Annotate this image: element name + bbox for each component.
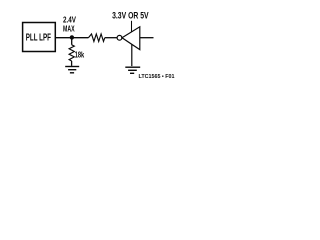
svg-text:3.3V OR 5V: 3.3V OR 5V (112, 10, 149, 20)
output wire (140, 37, 154, 39)
op-amp U1 inverter triangle (122, 27, 140, 50)
inverter bubble (117, 35, 122, 40)
wire box to R1 through node (55, 37, 88, 39)
ground (below 18k) (65, 67, 79, 73)
resistor 18k (pulldown, vertical zigzag) (69, 45, 74, 61)
background (0, 0, 177, 91)
block PLL LPF (23, 23, 56, 52)
wire triangle bottom edge to ground (131, 44, 133, 66)
svg-text:18k: 18k (75, 51, 85, 60)
label 2.4V MAX (63, 15, 76, 34)
wire R1 to inverter bubble (105, 37, 117, 39)
svg-text:MAX: MAX (63, 24, 75, 34)
wire junction down to 18k (71, 38, 73, 45)
ground (below inverter) (125, 67, 140, 73)
resistor R1 (series, horizontal zigzag) (88, 34, 104, 42)
wire supply stub to triangle top edge (131, 21, 133, 32)
node junction dot (70, 35, 74, 39)
svg-text:LTC1565 • F01: LTC1565 • F01 (139, 74, 175, 80)
wire 18k to ground (71, 61, 73, 66)
svg-text:PLL LPF: PLL LPF (26, 33, 51, 44)
